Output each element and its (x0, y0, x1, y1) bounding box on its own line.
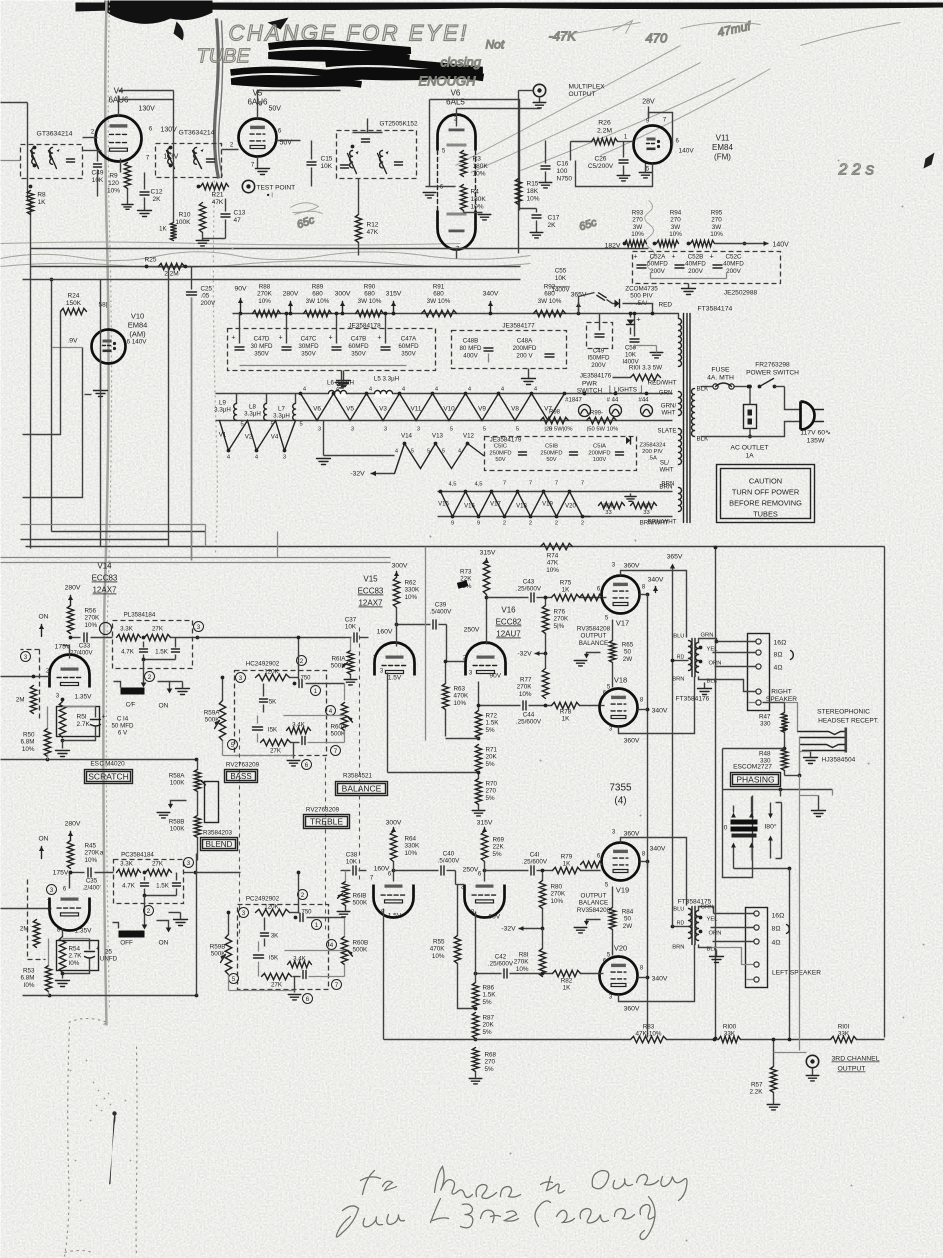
pencil scrawl 47K (549, 18, 754, 45)
svg-text:5: 5 (300, 422, 303, 428)
V16 grid wire (447, 625, 466, 662)
svg-text:180K: 180K (471, 196, 487, 203)
resistor R80 270K (539, 869, 566, 929)
svg-text:ECC83: ECC83 (92, 574, 118, 583)
svg-text:250V: 250V (464, 627, 480, 634)
svg-text:3: 3 (50, 887, 54, 894)
svg-text:16Ω: 16Ω (774, 640, 787, 647)
svg-text:MULTIPLEX: MULTIPLEX (569, 84, 606, 91)
svg-text:470: 470 (646, 31, 668, 46)
heater coil L9 (214, 394, 244, 428)
svg-text:FT3584176: FT3584176 (676, 696, 710, 703)
svg-text:4A. MTH: 4A. MTH (707, 375, 734, 382)
8ohm label (713, 651, 794, 660)
black marker scribble 1 (269, 43, 411, 58)
BRN label (661, 481, 674, 488)
svg-text:YEL: YEL (707, 647, 719, 653)
svg-text:27K: 27K (152, 861, 164, 868)
wire V5 plate top (258, 91, 341, 108)
4ohm label lower (713, 940, 781, 947)
svg-text:PHASING: PHASING (736, 775, 774, 785)
resistor 3.4K tone3 (288, 956, 312, 968)
315V label (480, 550, 496, 564)
svg-text:33: 33 (643, 510, 649, 516)
svg-text:PC2492902: PC2492902 (246, 896, 280, 903)
svg-text:27K: 27K (271, 982, 283, 989)
svg-text:10%: 10% (22, 746, 35, 753)
svg-text:C43: C43 (523, 579, 535, 586)
capacitor C43 (487, 579, 552, 603)
svg-text:3RD CHANNEL: 3RD CHANNEL (832, 1056, 880, 1063)
svg-text:R89: R89 (312, 284, 324, 291)
svg-text:3.3µH: 3.3µH (273, 413, 290, 420)
svg-text:+: + (278, 335, 282, 342)
V4 pin2 wire (83, 130, 98, 138)
svg-text:270K: 270K (514, 959, 530, 966)
svg-text:+: + (101, 714, 105, 721)
capacitor C50 10K (622, 312, 662, 366)
svg-text:POWER SWITCH: POWER SWITCH (746, 370, 799, 377)
svg-text:V16: V16 (464, 504, 475, 510)
svg-text:3W 10%: 3W 10% (358, 298, 382, 305)
pot R60B 500K (341, 918, 368, 977)
svg-text:(AM): (AM) (129, 330, 146, 339)
svg-text:R15: R15 (527, 181, 539, 188)
svg-text:C5IA: C5IA (593, 444, 606, 450)
ON label upper ch (39, 614, 49, 637)
resistor R86 1.5K (472, 912, 496, 1009)
pencil diagonal lines (456, 21, 901, 173)
svg-text:C52A: C52A (650, 254, 667, 261)
svg-text:R84: R84 (622, 909, 634, 916)
diode 2 (627, 312, 642, 335)
svg-text:AC OUTLET: AC OUTLET (730, 445, 768, 452)
svg-text:OFF: OFF (120, 940, 133, 947)
svg-text:10%: 10% (527, 196, 540, 203)
resistor R4 180K (460, 185, 486, 211)
ESCOM4020 label (90, 761, 125, 768)
IF transformer T1 coil B (49, 148, 60, 169)
svg-text:680: 680 (312, 291, 323, 298)
svg-text:10K: 10K (625, 352, 637, 359)
svg-text:TUBE: TUBE (197, 46, 251, 68)
capacitor C52C (709, 254, 744, 275)
svg-text:closing: closing (441, 55, 482, 70)
label R3584203 (203, 830, 233, 837)
svg-text:R21: R21 (212, 192, 224, 199)
svg-text:V15: V15 (438, 502, 449, 508)
svg-text:200V: 200V (688, 268, 704, 275)
svg-text:20K: 20K (483, 1022, 495, 1029)
resistor 3.4K tone2 (287, 722, 311, 734)
svg-text:C47C: C47C (301, 336, 317, 343)
resistor R57 2.2K (750, 1038, 780, 1110)
svg-text:1: 1 (315, 922, 319, 929)
svg-text:680: 680 (364, 291, 375, 298)
svg-text:C44: C44 (523, 712, 535, 719)
V20 plate wire (619, 945, 695, 1002)
circled 3 left (21, 652, 31, 662)
svg-text:L8: L8 (249, 404, 256, 411)
OT lower primary winding (689, 909, 692, 939)
svg-text:6.8M: 6.8M (21, 739, 35, 746)
svg-text:JE3584176: JE3584176 (580, 373, 612, 380)
capacitor C48A (513, 338, 554, 360)
svg-text:300V: 300V (392, 563, 408, 570)
svg-text:130V: 130V (139, 106, 156, 113)
360V label v17 (624, 563, 640, 570)
svg-text:V11: V11 (411, 406, 422, 413)
phasing ground (800, 796, 826, 817)
svg-text:12AX7: 12AX7 (358, 599, 383, 608)
circled 2 tone (297, 656, 307, 666)
365V trunk (672, 567, 674, 771)
resistor R93 270 3W (623, 210, 647, 247)
resistor R70 270 (472, 771, 497, 816)
svg-text:BALANCE: BALANCE (579, 640, 608, 647)
resistor R89 680 3W (304, 284, 332, 317)
svg-text:3W 10%: 3W 10% (306, 298, 330, 305)
capacitor C47A (377, 312, 419, 358)
svg-text:5: 5 (516, 427, 519, 433)
svg-text:⎣ LIGHTS ⎦: ⎣ LIGHTS ⎦ (609, 386, 642, 394)
V17 plate wire (621, 571, 687, 638)
OT lower ground (710, 948, 724, 963)
svg-text:BASS: BASS (230, 772, 251, 781)
dashed box PL3584184 (113, 612, 193, 669)
wire V19 grid (581, 861, 603, 867)
svg-text:Z3584324: Z3584324 (639, 443, 666, 449)
pencil coil squiggle (645, 201, 655, 271)
svg-text:.5/400V: .5/400V (438, 858, 461, 865)
circled 3 upper (194, 622, 204, 632)
svg-text:750: 750 (300, 676, 311, 682)
365V tap (571, 292, 587, 316)
280V label lower (65, 821, 81, 841)
svg-text:140V: 140V (679, 148, 695, 155)
svg-text:2: 2 (581, 521, 584, 527)
svg-text:5%: 5% (485, 1066, 495, 1073)
svg-text:BALANCE: BALANCE (342, 784, 382, 794)
resistor R101 3.3 5W (613, 365, 663, 381)
tube V10 EM84 (92, 330, 126, 364)
svg-text:500K: 500K (331, 731, 347, 738)
RED/WHT label (648, 380, 677, 387)
340V label v20 (638, 976, 668, 983)
capacitor C37 10K (345, 617, 369, 643)
-32V label v16 (517, 651, 547, 658)
resistor 27K lower box (143, 861, 172, 876)
svg-text:BRN: BRN (672, 945, 684, 951)
pot output balance lower (574, 887, 634, 956)
wire T3 top (353, 119, 383, 133)
svg-text:R3584521: R3584521 (343, 773, 373, 780)
svg-text:400V: 400V (463, 352, 478, 359)
svg-text:2.2K: 2.2K (750, 1089, 764, 1096)
svg-text:V​14: V​14 (97, 562, 112, 571)
svg-text:EM84: EM84 (128, 321, 148, 330)
svg-text:FR2763298: FR2763298 (755, 362, 790, 369)
svg-text:2: 2 (503, 521, 506, 527)
svg-text:V4: V4 (271, 434, 279, 441)
svg-text:135W: 135W (807, 438, 825, 445)
ground heater top (335, 371, 348, 388)
svg-text:V2: V2 (245, 434, 253, 441)
handwritten note line1 (361, 1167, 688, 1201)
capacitor C lower cathode (63, 939, 118, 974)
filter bank ground (240, 366, 407, 387)
svg-text:C17: C17 (548, 215, 560, 222)
svg-text:RV2763209: RV2763209 (226, 762, 260, 769)
svg-text:50 MFD: 50 MFD (111, 723, 134, 730)
svg-text:350V: 350V (301, 350, 316, 357)
circled 2 lower (144, 906, 154, 916)
multiplex output label (569, 84, 606, 99)
left speaker bottom wires (712, 948, 754, 980)
phasing 0 label (724, 825, 728, 832)
svg-text:C4I: C4I (530, 852, 540, 859)
capacitor 4.7K in box (121, 642, 147, 660)
V14b pin labels (47, 887, 92, 935)
svg-text:200 PIV: 200 PIV (642, 449, 663, 455)
svg-text:R8I: R8I (519, 952, 529, 959)
label RV2763209 treble (306, 807, 340, 814)
svg-text:FT3584174: FT3584174 (698, 306, 733, 313)
svg-text:1K: 1K (563, 985, 572, 992)
ground headset (800, 752, 818, 764)
250V label v16b (463, 867, 487, 874)
svg-text:UNFD: UNFD (100, 956, 118, 963)
svg-text:Not: Not (486, 38, 505, 52)
svg-text:V20: V20 (565, 504, 576, 510)
resistor R12 47K (355, 179, 379, 256)
300V label v15b (386, 820, 402, 833)
resistor R75 1K (552, 580, 603, 601)
svg-text:10K: 10K (555, 275, 567, 282)
svg-text:R62: R62 (405, 580, 417, 587)
340V tap (483, 291, 499, 316)
heater ground row2 (317, 421, 395, 465)
svg-text:315V: 315V (480, 550, 496, 557)
grid cap circle V14 (100, 623, 112, 635)
tube V4 (96, 116, 142, 162)
pot R61A 500K (331, 638, 357, 685)
svg-text:BLK: BLK (697, 386, 710, 393)
resistor R87 20K (472, 1007, 494, 1040)
svg-text:RV3584208: RV3584208 (577, 626, 611, 633)
svg-text:10K: 10K (321, 163, 333, 170)
resistor 120K tone2 (239, 904, 290, 918)
svg-text:330K: 330K (405, 843, 421, 850)
scan blob arrow mark (268, 18, 289, 30)
svg-text:(4): (4) (614, 796, 626, 807)
V16b grid wire (456, 871, 465, 885)
svg-text:500K: 500K (331, 663, 347, 670)
resistor R58A 100K (169, 760, 206, 792)
resistor R96 33 (599, 502, 625, 516)
pot R59B 500K (210, 911, 232, 975)
phasing bottom wires (734, 848, 792, 1040)
resistor R81 270K (514, 929, 546, 977)
svg-text:-32V: -32V (350, 471, 365, 478)
svg-text:340V: 340V (652, 708, 668, 715)
svg-text:500K: 500K (353, 900, 369, 907)
svg-text:C42: C42 (495, 954, 507, 961)
svg-text:R76: R76 (554, 609, 566, 616)
svg-text:R65: R65 (622, 642, 634, 649)
svg-text:GT3634214: GT3634214 (179, 130, 215, 137)
280V label upper ch (65, 585, 81, 606)
svg-text:RED: RED (659, 302, 673, 309)
250V label v16 (464, 627, 480, 634)
OT lower secondary winding (696, 911, 699, 941)
BLK label ot (699, 677, 718, 685)
resistor 120K tone (236, 669, 290, 683)
svg-text:33: 33 (605, 510, 611, 516)
svg-text:C37: C37 (345, 617, 357, 624)
svg-text:C49: C49 (593, 348, 605, 355)
interconnect verticals (21, 267, 278, 558)
svg-text:270: 270 (486, 788, 497, 795)
svg-text:PL3584184: PL3584184 (124, 612, 156, 619)
svg-text:ENOUGH: ENOUGH (419, 74, 477, 89)
svg-text:C13: C13 (234, 210, 246, 217)
svg-text:BLU: BLU (673, 907, 684, 913)
IF transformer T2 coil A (167, 146, 175, 169)
svg-text:200V: 200V (201, 300, 217, 307)
right trunk wire (884, 547, 886, 1038)
svg-text:R3: R3 (473, 156, 482, 163)
160V label v15b (374, 866, 396, 873)
capacitor C52B (671, 254, 706, 275)
GRN label ot (699, 633, 719, 644)
ON ground upper (158, 682, 190, 710)
resistor R25 2.2M (145, 257, 188, 278)
svg-text:R9: R9 (109, 173, 118, 180)
svg-text:RV2763209: RV2763209 (306, 807, 340, 814)
caution box (717, 465, 815, 523)
svg-text:90V: 90V (490, 673, 502, 680)
svg-text:RED/WHT: RED/WHT (648, 380, 677, 387)
capacitor C16 100 N750 (539, 141, 572, 188)
handwritten note line2 (336, 1197, 655, 1240)
black switch bar OFF (114, 660, 147, 709)
bass gang dashed link (239, 730, 241, 939)
heater coil L8 (244, 394, 274, 428)
svg-text:R58A: R58A (169, 773, 186, 780)
resistor R94 270 3W (653, 210, 683, 247)
svg-text:R91: R91 (433, 284, 445, 291)
resistor R8 1K (27, 185, 46, 215)
svg-text:|50 5W 10%: |50 5W 10% (587, 427, 618, 433)
svg-text:GT2505K152: GT2505K152 (379, 121, 417, 128)
control box BASS (225, 770, 258, 783)
svg-text:C39: C39 (435, 602, 447, 609)
heater coil L7 (273, 394, 303, 428)
svg-text:I5K: I5K (269, 955, 279, 962)
svg-text:270K: 270K (257, 291, 273, 298)
svg-text:N750: N750 (557, 176, 573, 183)
ganged pot dashed link (359, 628, 361, 881)
tube V18 designator (614, 676, 627, 685)
resistor 3.3K lower box (117, 861, 141, 876)
svg-text:250MFD: 250MFD (540, 450, 562, 456)
svg-text:270K: 270K (85, 615, 101, 622)
resistor 3.3K in box (117, 626, 141, 641)
svg-text:+: + (328, 335, 332, 342)
BRN/WHT label (648, 519, 677, 526)
svg-text:3: 3 (417, 427, 420, 433)
heater coil L5 (374, 376, 399, 398)
svg-text:10%: 10% (546, 567, 559, 574)
V4 130V label top (139, 106, 156, 113)
tube V14 triode (50, 655, 90, 688)
svg-text:3: 3 (24, 654, 28, 661)
resistor R63 470K (442, 660, 469, 737)
svg-text:120: 120 (108, 180, 119, 187)
svg-text:R8: R8 (37, 192, 46, 199)
circled 2 tone2 (298, 890, 308, 900)
svg-text:90V: 90V (234, 286, 247, 293)
svg-text:175V: 175V (55, 644, 71, 651)
resistor R92 680 3W (534, 284, 566, 317)
V15b cathode wire (383, 909, 385, 1040)
V6 outer loop wire (430, 100, 520, 211)
tone ground lower (288, 977, 301, 1000)
tube V6 envelope (438, 115, 476, 253)
resistor R58B 100K (169, 782, 219, 838)
lower top bus (1, 547, 885, 558)
V14b left resistor (20, 920, 40, 948)
svg-text:4,5: 4,5 (474, 482, 482, 488)
pencil squiggle left of R12 (291, 203, 599, 234)
fuse symbol (701, 383, 747, 389)
pot R60A 500K (331, 703, 353, 743)
heater row3 bottom numbers (451, 521, 584, 527)
phasing 180 label (764, 823, 776, 831)
wire V11 loop (576, 161, 653, 187)
pilot lamp 1847 (565, 392, 590, 417)
svg-text:150K: 150K (66, 300, 82, 307)
175V label upper (55, 644, 71, 651)
svg-text:R60B: R60B (353, 940, 369, 947)
svg-text:C52B: C52B (688, 254, 704, 261)
svg-text:2K: 2K (153, 196, 162, 203)
IF transformer T1 cap (67, 159, 75, 162)
svg-text:JE3584177: JE3584177 (502, 323, 535, 330)
svg-text:HJ3584504: HJ3584504 (822, 757, 856, 764)
svg-text:500 PIV: 500 PIV (630, 293, 653, 300)
svg-text:12AU7: 12AU7 (496, 630, 521, 639)
svg-text:R56: R56 (85, 608, 97, 615)
resistor R91 680 3W (422, 284, 457, 317)
LIGHTS label (609, 386, 642, 394)
BRN label ot (672, 677, 684, 683)
control box SCRATCH (85, 770, 133, 784)
heater row3 zigzag (438, 490, 590, 519)
svg-text:R72: R72 (486, 713, 498, 720)
svg-text:300V: 300V (335, 291, 351, 298)
360V label v19 (624, 831, 640, 838)
svg-text:4: 4 (395, 449, 398, 455)
svg-text:10%: 10% (85, 857, 98, 864)
svg-text:V10: V10 (131, 312, 144, 321)
svg-text:5: 5 (483, 427, 486, 433)
power switch symbol (747, 379, 785, 389)
svg-text:C38: C38 (346, 852, 358, 859)
FT3584175 upper label (676, 696, 710, 703)
BLU label (673, 634, 684, 640)
